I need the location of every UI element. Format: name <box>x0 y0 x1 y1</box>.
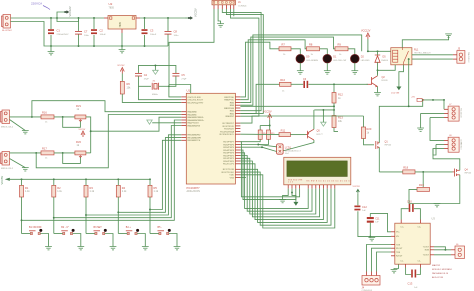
svg-text:T1OUT: T1OUT <box>423 247 430 249</box>
wire J3 to RA1 <box>36 115 181 168</box>
wire relay common down <box>399 65 404 87</box>
svg-text:CONN-6: CONN-6 <box>238 5 247 7</box>
wire button B2 line to U1 <box>54 126 182 218</box>
svg-text:+5V: +5V <box>411 97 415 99</box>
U3 right pin stubs <box>430 247 434 255</box>
svg-text:ADD-XCON: ADD-XCON <box>432 276 444 279</box>
wire U1 to R12/R13 node <box>240 105 334 107</box>
capacitor C6 <box>303 81 305 88</box>
wire R18 to Q4 gate <box>415 171 453 173</box>
svg-text:RE2/AN7/CS: RE2/AN7/CS <box>188 139 201 142</box>
J1 pin stubs <box>214 5 234 9</box>
svg-text:RD3/PSP3: RD3/PSP3 <box>223 153 234 155</box>
svg-text:R11: R11 <box>281 129 286 133</box>
wire C8 top <box>167 18 169 31</box>
wire B1 right contact to gnd <box>40 234 48 247</box>
wire C7 top <box>78 18 80 31</box>
wire R19 left to gnd rail <box>409 189 437 203</box>
svg-text:100n: 100n <box>84 35 90 37</box>
resistor R1 <box>20 185 24 197</box>
wire R8 to D1 <box>320 49 328 55</box>
svg-text:RC1/T1OSI: RC1/T1OSI <box>223 169 235 171</box>
svg-text:C2: C2 <box>100 29 104 33</box>
capacitor C13 <box>411 270 413 278</box>
junction <box>443 99 445 101</box>
wire relay coil bottom to Q2 <box>378 65 396 71</box>
connector J7 <box>448 106 459 121</box>
LED D9 <box>296 54 305 63</box>
ground under J1 <box>217 24 224 27</box>
junction <box>333 109 335 111</box>
svg-text:RC0/T1OSO: RC0/T1OSO <box>222 172 235 174</box>
svg-text:B2 - C°: B2 - C° <box>61 226 69 229</box>
wire U1 to LCD RS <box>240 142 299 197</box>
svg-text:OSC2/CLKOUT: OSC2/CLKOUT <box>188 100 204 102</box>
junction Q1 drain tap <box>408 58 410 60</box>
wire U2 gnd stub <box>121 46 123 50</box>
svg-text:1.1k: 1.1k <box>57 190 62 193</box>
resistor R9 <box>335 47 348 51</box>
junction R1/bus <box>21 219 23 221</box>
wire U1 to LCD1 RW diag <box>258 145 276 147</box>
wire +5V pullup rail <box>10 178 150 180</box>
U3 top pin stubs <box>401 220 420 224</box>
resistor R13 <box>332 116 336 128</box>
svg-text:R2OUT: R2OUT <box>396 256 403 258</box>
wire B4 right contact to gnd <box>137 234 145 247</box>
wire J2 to RA0 <box>32 101 181 117</box>
svg-text:B5 -: B5 - <box>158 226 163 229</box>
wire +5V to J7 pin1 <box>424 100 444 109</box>
wire U1 to LCD D4 <box>240 164 323 220</box>
J4 pin stubs <box>367 272 377 276</box>
transistor Q2 <box>367 76 378 87</box>
capacitor C3 <box>142 29 148 31</box>
resistor R14 <box>258 130 262 139</box>
transistor Q5 <box>306 129 314 140</box>
svg-text:R6: R6 <box>127 82 131 86</box>
U1 right pin stubs <box>235 97 240 178</box>
wire C11 bottom <box>369 223 371 237</box>
wire LCD VDD to flag <box>292 189 296 202</box>
resistor R11 <box>279 133 290 137</box>
wire U1 to LCD D2 <box>240 158 315 214</box>
wire U3 to J6 pin2 <box>434 254 451 256</box>
ground under D1 <box>324 71 331 74</box>
svg-text:B4 +: B4 + <box>126 226 132 229</box>
wire RV1 right down to RV2 right <box>86 117 91 153</box>
junction R5/bus <box>149 209 151 211</box>
ground under B1 <box>45 247 52 250</box>
wire U1 to R20 route <box>240 116 363 123</box>
svg-text:R8: R8 <box>309 43 313 47</box>
wire R12 top <box>333 84 335 92</box>
wire R1 top <box>21 179 23 185</box>
svg-text:27pF: 27pF <box>144 78 150 80</box>
ground under Q2 <box>374 93 381 96</box>
svg-text:RD4/PSP4: RD4/PSP4 <box>223 150 234 152</box>
junction <box>31 116 33 118</box>
wire stub to VCC5V flag <box>185 17 188 19</box>
svg-text:R1IN: R1IN <box>425 250 430 252</box>
wire Q2 emitter to gnd <box>377 87 379 93</box>
wire detour loop <box>57 18 79 22</box>
transistor Q1 <box>376 141 380 149</box>
svg-text:TBLOCK-I2: TBLOCK-I2 <box>467 52 469 63</box>
svg-text:T2OUT: T2OUT <box>423 255 430 257</box>
wire U1 to LCD D6 <box>240 172 331 225</box>
svg-text:RB3/PGM: RB3/PGM <box>224 108 234 110</box>
wire U3 gnd pin <box>394 264 399 269</box>
net flag +5V for R6 <box>120 68 124 74</box>
ground relay contact <box>445 34 452 37</box>
svg-text:U2: U2 <box>109 2 113 6</box>
U1 left pin names <box>188 97 206 142</box>
capacitor C4 <box>135 73 142 76</box>
svg-text:C5: C5 <box>181 73 185 77</box>
wire C10 right loop <box>414 209 421 220</box>
ground under LCD <box>279 199 286 202</box>
capacitor C2 <box>91 29 97 31</box>
wire J7 pin3 wire <box>430 117 444 119</box>
wire R14 top <box>259 126 261 131</box>
svg-text:RA4/T0CKI: RA4/T0CKI <box>188 122 199 125</box>
svg-text:R19: R19 <box>419 183 424 187</box>
wire +5V to R6 <box>121 74 123 82</box>
net arrow LCD ON <box>396 87 401 91</box>
svg-text:R2: R2 <box>57 186 61 190</box>
wire R13 bottom stub <box>334 128 338 132</box>
IC U3 MAX232 <box>395 223 430 264</box>
trimmer RV2 <box>75 151 86 155</box>
wire U1 to LCD1 E diag <box>240 147 276 151</box>
wire RV1 wiper loop <box>63 117 81 127</box>
voltage regulator U2 <box>108 16 136 30</box>
wire RV2 right <box>86 152 91 154</box>
wire C2 bottom <box>93 35 95 46</box>
wire R12/R13 junction line <box>314 109 334 111</box>
wire B3 left contact <box>86 233 95 235</box>
svg-text:C1-: C1- <box>400 261 403 263</box>
svg-text:C12: C12 <box>362 205 367 209</box>
transistor Q4 <box>453 169 460 177</box>
svg-text:LCD1: LCD1 <box>285 146 292 149</box>
ground under J7 <box>417 128 424 131</box>
wire B5 right contact to gnd <box>169 234 177 247</box>
wire RV2 wiper loop <box>63 153 81 164</box>
U3 bottom pin stubs <box>406 264 421 267</box>
wire relay NO contact to gnd <box>402 36 448 48</box>
wire button B4 line to U1 <box>118 138 181 213</box>
wire U1 RB5 to R9 <box>240 37 335 102</box>
wire D5 top wire <box>377 51 379 55</box>
wire R2 top <box>53 179 55 185</box>
wire J7 pin2 wire <box>421 112 444 114</box>
connector J3 <box>1 152 10 166</box>
svg-text:R17: R17 <box>42 146 47 150</box>
wire gnd arrow stem <box>322 110 324 122</box>
junction <box>85 178 87 180</box>
resistor R17 <box>41 151 54 155</box>
svg-text:ADD+XCON: ADD+XCON <box>187 190 201 193</box>
resistor R16 <box>41 115 54 119</box>
wire U3 T1OUT jog <box>434 247 445 250</box>
wire C11 top to U3 <box>370 213 391 231</box>
wire C13 left loop <box>406 268 412 275</box>
svg-text:RD6/PSP6: RD6/PSP6 <box>223 144 234 146</box>
svg-text:R9: R9 <box>338 43 342 47</box>
wire C6 to Q2 base <box>308 83 368 85</box>
junction D5/coil/Q2 <box>377 69 379 71</box>
svg-text:SIL-100-03: SIL-100-03 <box>460 108 462 117</box>
wire branch to U1 VDD <box>169 85 191 94</box>
svg-text:RD1/PSP1: RD1/PSP1 <box>223 158 234 160</box>
junction <box>50 17 52 19</box>
wire R9 to D2 <box>348 49 355 55</box>
junction crystal rail <box>154 64 156 66</box>
wire J8 pin2 stub <box>436 144 444 146</box>
svg-text:RD5/PSP5: RD5/PSP5 <box>223 147 234 149</box>
wire Q1 source down <box>378 147 380 172</box>
ground under B5 <box>174 247 181 250</box>
svg-text:C8: C8 <box>174 30 178 34</box>
svg-text:OSC1/CLKIN: OSC1/CLKIN <box>188 97 201 99</box>
wire J4 pin3 to U3 <box>377 252 392 272</box>
svg-text:RA3/AN3/VREF+: RA3/AN3/VREF+ <box>188 119 206 122</box>
wire D1 cathode to gnd <box>326 63 328 71</box>
resistor R3 <box>84 185 88 197</box>
LCD screen <box>287 161 347 177</box>
junction <box>444 249 446 251</box>
wire U1 to LCD D7 <box>240 175 334 228</box>
svg-text:7805: 7805 <box>109 7 115 10</box>
junction <box>322 109 324 111</box>
svg-text:LED-GREEN: LED-GREEN <box>306 60 318 62</box>
junction +5V <box>422 99 424 101</box>
wire B1 left contact <box>22 233 31 235</box>
svg-text:VDD: VDD <box>229 175 234 177</box>
wire Q4 source to gnd <box>437 175 460 204</box>
wire button B3 line to U1 <box>86 135 181 215</box>
wire C1 bottom <box>50 35 52 46</box>
wire R1 bottom to button B1 <box>21 197 23 234</box>
wire D5 bottom to Q2 collector <box>377 62 379 74</box>
junction <box>93 45 95 47</box>
svg-text:1 2 3: 1 2 3 <box>288 182 293 184</box>
svg-text:R16: R16 <box>42 110 47 114</box>
junction <box>149 178 151 180</box>
wire C11 top wire <box>369 213 371 216</box>
wire J1 pin2 to gnd <box>218 9 221 24</box>
wire B3 right contact to gnd <box>105 234 113 247</box>
svg-text:MAX232: MAX232 <box>432 264 441 267</box>
svg-text:RC7/RX/DT: RC7/RX/DT <box>222 123 234 125</box>
svg-text:U1: U1 <box>187 89 191 93</box>
svg-text:VCC5V: VCC5V <box>79 129 86 131</box>
diode D5 <box>375 55 380 62</box>
junction <box>261 146 263 148</box>
svg-text:RA2/AN2/VREF-: RA2/AN2/VREF- <box>188 116 205 119</box>
svg-text:RL1: RL1 <box>414 49 419 52</box>
wire B2 left contact <box>54 233 63 235</box>
ground under J2 <box>22 131 29 134</box>
svg-text:VS-: VS- <box>396 236 400 238</box>
svg-text:R12: R12 <box>338 93 343 97</box>
svg-text:T1IN: T1IN <box>396 244 401 246</box>
wire J4 pin2 to U3 <box>372 248 392 271</box>
svg-text:100uF: 100uF <box>100 34 107 36</box>
wire C7 bottom <box>78 35 80 47</box>
svg-text:RC5/SDO: RC5/SDO <box>224 129 234 131</box>
wire relay to J5 pin1 <box>412 54 453 56</box>
gnd arrow mid <box>321 122 326 126</box>
wire R15 top <box>269 126 271 131</box>
svg-text:SL-2CN-2: SL-2CN-2 <box>2 30 13 32</box>
svg-text:R4: R4 <box>122 186 126 190</box>
LCD module body <box>284 157 351 185</box>
wire X1 right wire <box>159 85 169 87</box>
resistor R6 <box>120 81 124 94</box>
op-amp U1 microcontroller PIC16F877 body <box>186 93 235 184</box>
junction <box>62 152 64 154</box>
wire R5 top <box>149 179 151 185</box>
junction <box>117 178 119 180</box>
svg-text:T2IN: T2IN <box>396 252 401 254</box>
U1 right pin names <box>220 97 235 180</box>
wire C8 bottom <box>167 35 169 47</box>
svg-text:VCC12V: VCC12V <box>361 30 371 33</box>
wire U1 RB4 long line <box>240 35 361 105</box>
wire J2 pin2 to gnd diagonal <box>10 120 26 131</box>
wire C12 bottom rail <box>358 211 391 236</box>
svg-text:C7: C7 <box>84 30 88 34</box>
svg-text:RD2/PSP2: RD2/PSP2 <box>223 155 234 157</box>
wire J1 pin5 <box>231 9 259 116</box>
junction <box>144 45 146 47</box>
svg-text:RS RW E D0 D1 D2 D3 D4 D5 D6 D: RS RW E D0 D1 D2 D3 D4 D5 D6 D7 <box>307 181 352 183</box>
svg-text:4MHz: 4MHz <box>152 94 158 96</box>
resistor R4 <box>116 185 120 197</box>
wire X1 pin2 ground rail <box>11 22 169 47</box>
wire C13 right loop <box>417 268 421 275</box>
resistor R15 <box>267 130 271 139</box>
wire C10 left loop <box>401 209 409 220</box>
resistor R7 <box>279 47 291 51</box>
svg-text:VCC5V: VCC5V <box>117 65 125 67</box>
svg-text:RA5/AN4/SS: RA5/AN4/SS <box>188 124 201 127</box>
svg-text:IRF540: IRF540 <box>385 145 392 147</box>
wire B4 left contact <box>118 233 127 235</box>
junction <box>269 125 271 127</box>
svg-text:R5: R5 <box>154 186 158 190</box>
LED D1 <box>323 54 332 63</box>
svg-text:2200uF/50V: 2200uF/50V <box>57 34 69 36</box>
svg-text:7805: 7805 <box>119 22 122 28</box>
resistor R5 <box>148 185 152 197</box>
junction <box>21 178 23 180</box>
svg-text:R18: R18 <box>403 165 408 169</box>
wire R3 bottom to button B3 <box>85 197 87 234</box>
wire VCC12V to relay coil <box>368 39 391 51</box>
svg-text:C4: C4 <box>144 73 148 77</box>
junction <box>167 17 169 19</box>
wire U1 RB6 to R8 <box>240 40 306 100</box>
svg-text:RE0/AN5/RD: RE0/AN5/RD <box>188 134 201 137</box>
svg-text:LED-YELLOW: LED-YELLOW <box>333 60 346 62</box>
svg-text:LED-RED: LED-RED <box>361 60 370 62</box>
wire J1 pin1 down to crystal node <box>169 9 214 86</box>
capacitor C11 <box>367 217 374 219</box>
wire gnd arrow to RA4 <box>152 122 181 124</box>
capacitor C5 <box>172 73 179 76</box>
connector J4 <box>362 276 380 286</box>
junction <box>62 116 64 118</box>
LCD pin stubs <box>288 185 335 189</box>
wire B5 left contact <box>150 233 159 235</box>
junction <box>93 17 95 19</box>
ground under D9 <box>297 71 304 74</box>
trimmer RV1 <box>75 115 86 119</box>
ground under Q4 <box>434 204 441 207</box>
U1 left pin stubs <box>181 97 186 140</box>
svg-text:R10: R10 <box>280 78 285 82</box>
resistor R12 <box>332 93 336 104</box>
resistor R10 <box>280 82 292 86</box>
wire R2 bottom to button B2 <box>53 197 55 234</box>
wire B2 right contact to gnd <box>73 234 81 247</box>
junction <box>78 17 80 19</box>
svg-text:VCC5V: VCC5V <box>353 186 361 188</box>
svg-text:1.1k: 1.1k <box>90 190 95 193</box>
svg-text:U3: U3 <box>432 217 436 221</box>
junction <box>333 105 335 107</box>
svg-text:C3: C3 <box>150 29 154 33</box>
svg-text:TEXTELL-KBE-12V: TEXTELL-KBE-12V <box>414 53 431 55</box>
resistor R20 <box>362 127 366 139</box>
junction <box>78 45 80 47</box>
svg-text:MKDS-CN-2: MKDS-CN-2 <box>1 168 14 170</box>
svg-text:RC4/SDI/SDA: RC4/SDI/SDA <box>220 130 234 133</box>
resistor R8 <box>307 47 320 51</box>
wire to OSC1 <box>169 86 181 97</box>
wire J7 pin3 to J8 pin1 <box>430 118 444 141</box>
wire R16 to RV1 <box>54 116 75 118</box>
wire Q5 emitter up <box>313 110 315 129</box>
wire gate resistor tap <box>422 172 424 188</box>
junction <box>56 17 58 19</box>
wire C1 top <box>50 18 52 29</box>
capacitor C7 <box>75 32 82 35</box>
wire U1 VSS stub <box>240 177 246 179</box>
wire R11 to Q5 base <box>290 134 306 136</box>
net arrow under LCD <box>293 202 298 206</box>
ground under U2 <box>119 50 126 53</box>
ground under B2 <box>77 247 84 250</box>
svg-text:1.1k: 1.1k <box>25 190 30 193</box>
wire Q1 drain to +5V line <box>379 100 422 143</box>
connector J2 <box>1 110 10 124</box>
junction <box>50 45 52 47</box>
svg-text:BC177: BC177 <box>317 134 324 136</box>
svg-text:VSS: VSS <box>230 178 235 180</box>
wire relay to J5 pin2 <box>412 58 453 60</box>
wire to OSC2 <box>139 86 182 99</box>
wire J5 pin2 tap down <box>408 59 410 106</box>
svg-text:RE1/AN6/WR: RE1/AN6/WR <box>188 137 202 140</box>
wire R7 to D9 <box>291 49 300 55</box>
wire J3 pin2 to gnd diagonal <box>10 159 26 168</box>
junction R12 top <box>333 83 335 85</box>
